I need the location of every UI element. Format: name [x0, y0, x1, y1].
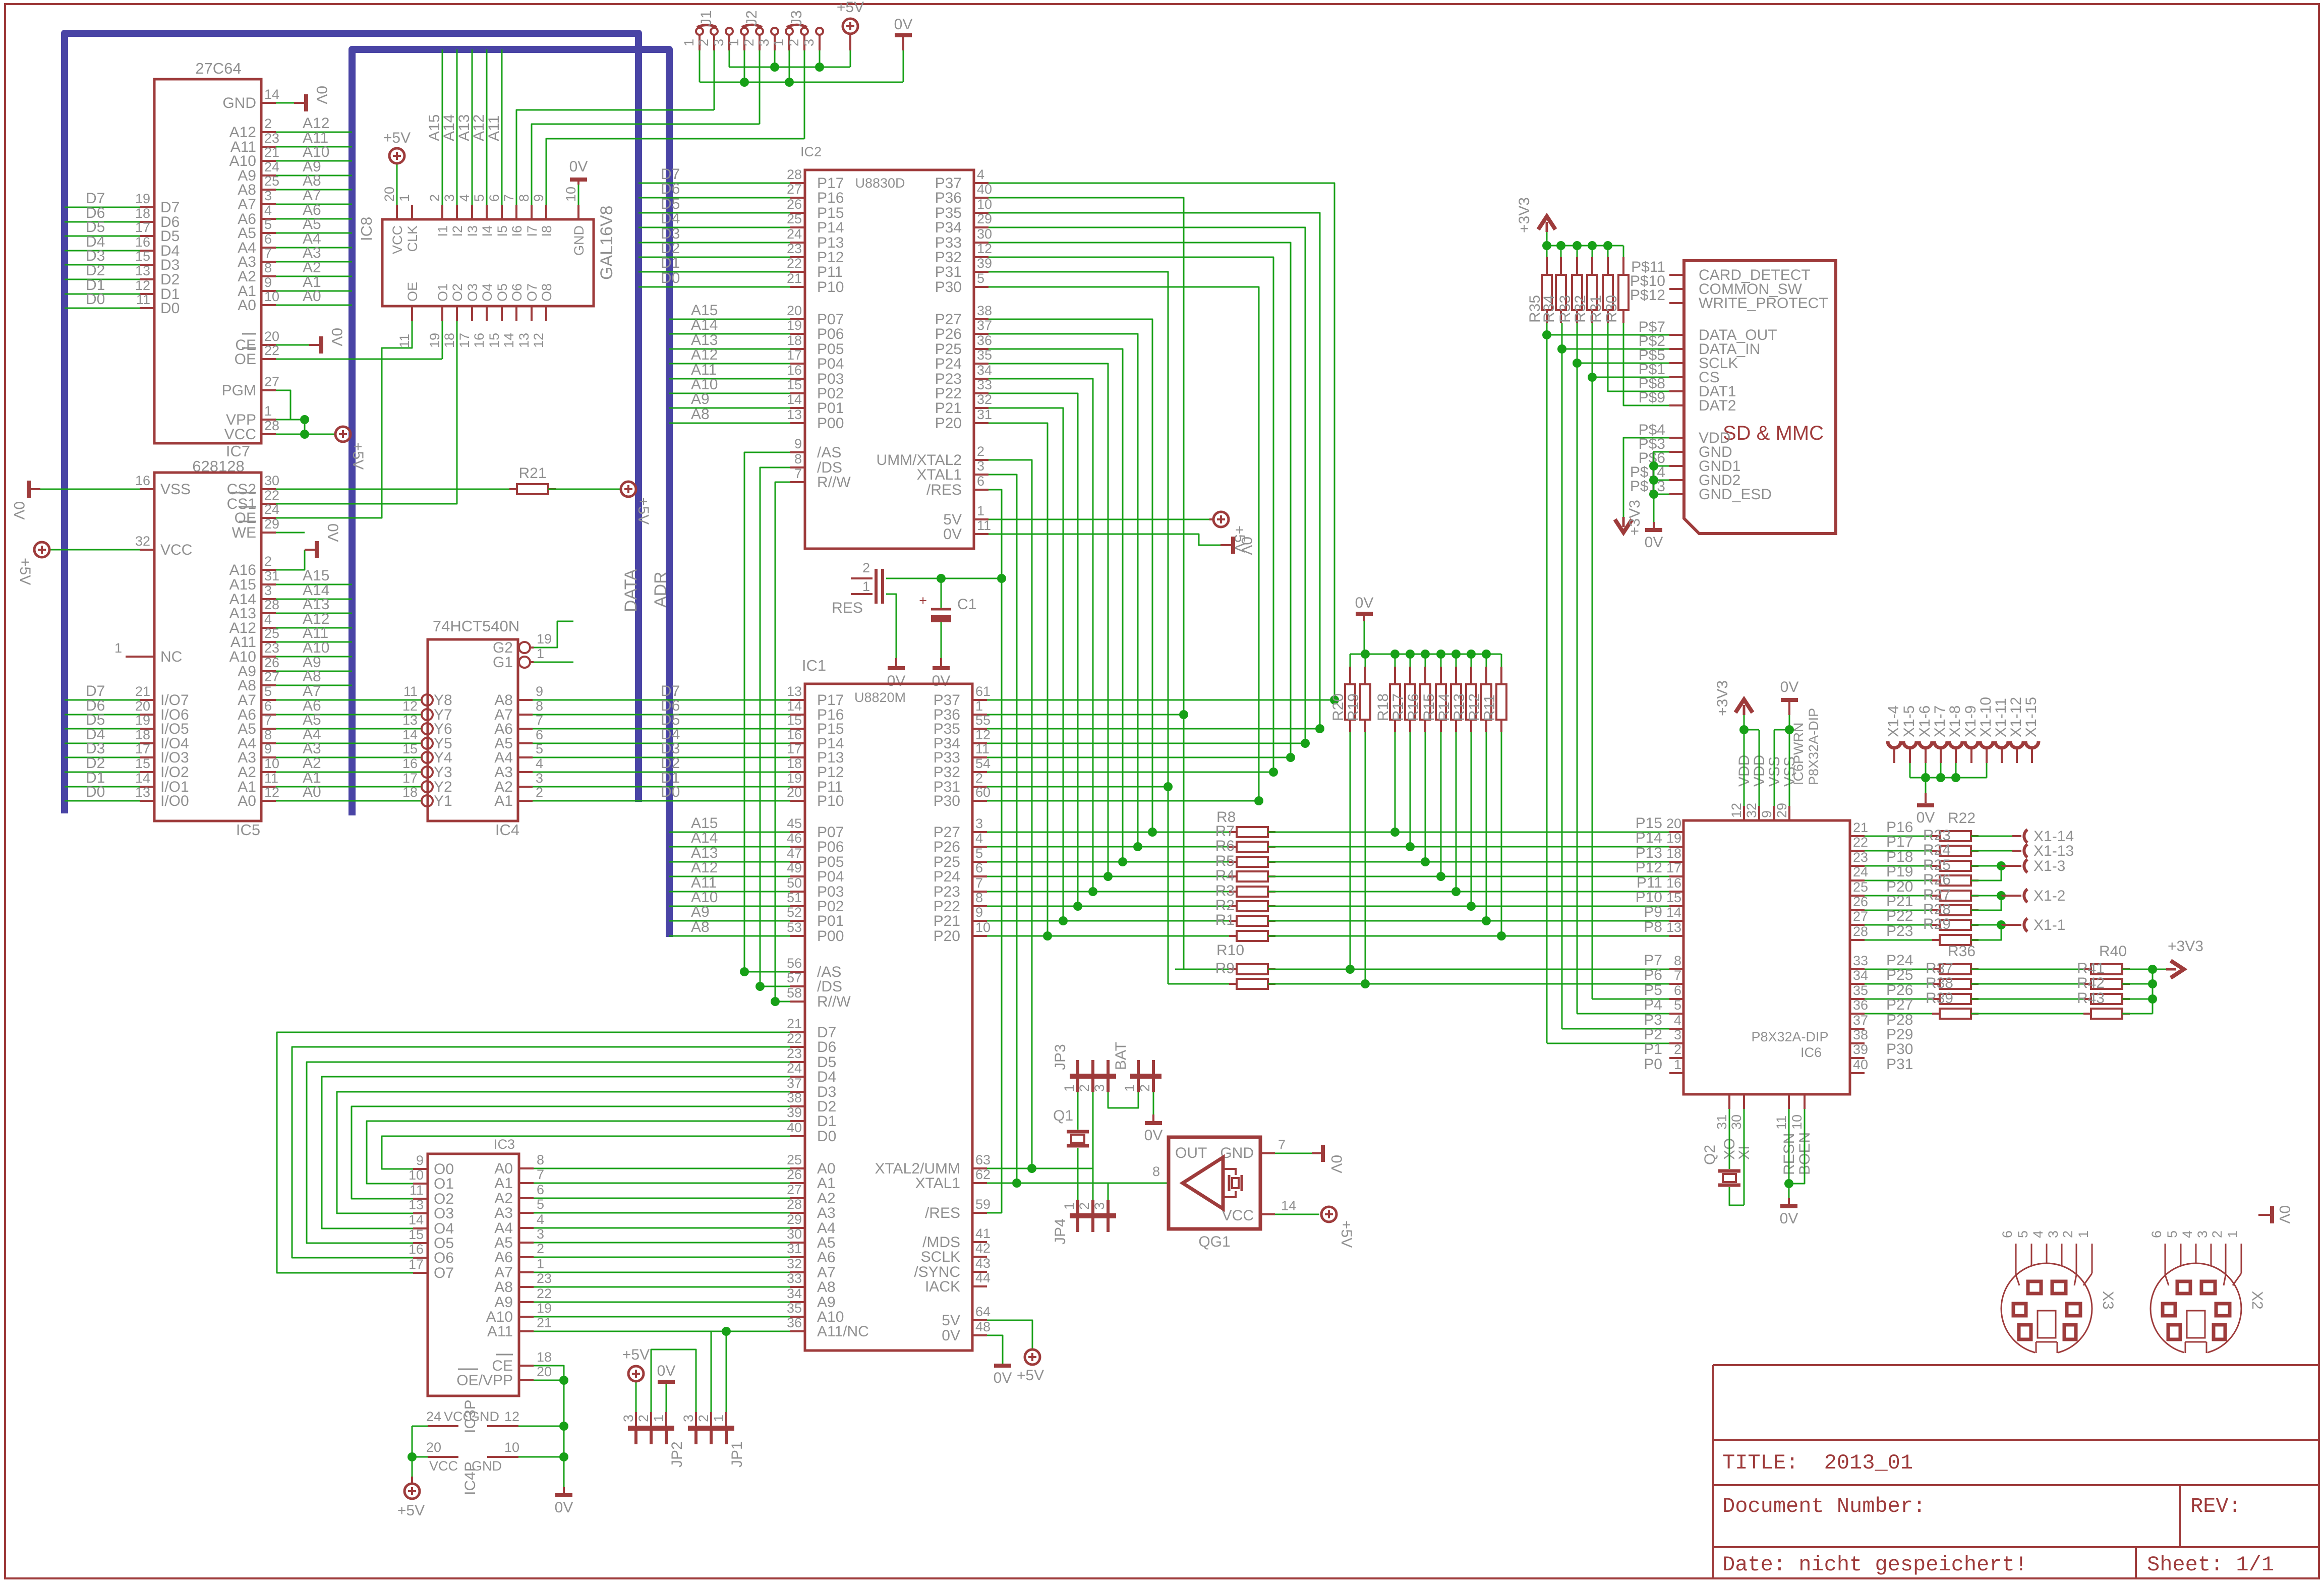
svg-text:2: 2: [786, 39, 801, 46]
svg-text:3: 3: [681, 1415, 696, 1422]
svg-text:/AS: /AS: [817, 444, 841, 461]
svg-text:0V: 0V: [932, 673, 951, 689]
svg-text:I3: I3: [465, 225, 480, 237]
svg-text:21: 21: [135, 684, 150, 699]
svg-text:P14: P14: [1636, 830, 1662, 846]
svg-text:59: 59: [975, 1197, 991, 1212]
svg-text:27: 27: [264, 374, 279, 389]
svg-text:1: 1: [1674, 1057, 1681, 1072]
svg-text:P24: P24: [935, 356, 962, 372]
svg-text:A11: A11: [486, 115, 502, 141]
svg-text:X1-4: X1-4: [1885, 706, 1902, 737]
svg-text:OE: OE: [235, 351, 256, 368]
svg-text:19: 19: [135, 713, 150, 728]
svg-text:4: 4: [1674, 1013, 1681, 1028]
svg-text:O6: O6: [509, 283, 525, 302]
svg-text:A6: A6: [817, 1249, 836, 1266]
svg-text:4: 4: [536, 756, 543, 771]
svg-text:OE/VPP: OE/VPP: [456, 1372, 513, 1389]
svg-text:0V: 0V: [1238, 537, 1255, 555]
svg-text:21: 21: [264, 145, 279, 160]
svg-text:+3V3: +3V3: [2168, 938, 2203, 955]
svg-text:0V: 0V: [328, 328, 345, 346]
svg-text:/RES: /RES: [925, 1205, 960, 1221]
svg-text:18: 18: [402, 785, 418, 800]
svg-text:18: 18: [787, 333, 802, 348]
svg-text:J3: J3: [788, 10, 805, 26]
svg-text:P10: P10: [817, 793, 844, 809]
svg-text:PGM: PGM: [222, 382, 256, 399]
svg-text:5: 5: [536, 741, 543, 756]
svg-text:D4: D4: [817, 1069, 836, 1085]
svg-text:A0: A0: [303, 288, 321, 305]
svg-text:P21: P21: [935, 400, 962, 417]
svg-text:J2: J2: [743, 10, 760, 26]
svg-text:25: 25: [787, 1152, 802, 1167]
svg-text:P14: P14: [817, 219, 844, 236]
svg-text:R16: R16: [1405, 693, 1422, 721]
svg-text:A3: A3: [494, 1205, 513, 1221]
svg-text:Y1: Y1: [434, 793, 452, 809]
svg-text:Q1: Q1: [1053, 1107, 1073, 1124]
svg-text:2: 2: [264, 554, 272, 569]
svg-text:8: 8: [536, 698, 543, 714]
svg-text:D0: D0: [160, 300, 180, 317]
svg-text:21: 21: [787, 1016, 802, 1031]
svg-text:20: 20: [1666, 816, 1681, 831]
svg-text:39: 39: [1853, 1042, 1868, 1057]
svg-text:R4: R4: [1215, 867, 1235, 884]
svg-text:P24: P24: [934, 868, 960, 885]
svg-text:22: 22: [787, 1031, 802, 1046]
svg-text:34: 34: [1853, 968, 1868, 983]
svg-text:P22: P22: [1886, 908, 1913, 924]
svg-text:P21: P21: [934, 913, 960, 929]
svg-text:/RES: /RES: [926, 482, 962, 498]
svg-text:P01: P01: [817, 913, 844, 929]
svg-text:1: 1: [2225, 1230, 2240, 1238]
svg-text:C1: C1: [957, 596, 976, 613]
svg-text:+5V: +5V: [1338, 1220, 1355, 1248]
svg-text:10: 10: [264, 756, 279, 771]
svg-text:GND_ESD: GND_ESD: [1699, 486, 1772, 503]
svg-text:40: 40: [1853, 1057, 1868, 1072]
svg-text:REV:: REV:: [2190, 1494, 2241, 1518]
svg-text:A8: A8: [691, 919, 710, 935]
svg-text:14: 14: [402, 727, 418, 742]
svg-text:O7: O7: [525, 283, 540, 302]
svg-text:12: 12: [531, 333, 546, 348]
svg-text:11: 11: [1774, 1115, 1789, 1130]
svg-text:JP2: JP2: [669, 1441, 685, 1467]
svg-text:20: 20: [264, 329, 279, 344]
svg-text:24: 24: [787, 226, 802, 242]
svg-text:24: 24: [426, 1409, 441, 1424]
svg-text:0V: 0V: [324, 523, 341, 542]
svg-text:0V: 0V: [942, 1327, 960, 1344]
svg-text:14: 14: [787, 392, 802, 407]
svg-text:43: 43: [975, 1256, 991, 1271]
svg-text:VSS: VSS: [160, 481, 191, 498]
svg-text:P8X32A-DIP: P8X32A-DIP: [1806, 708, 1821, 785]
svg-text:17: 17: [402, 771, 418, 786]
svg-text:P30: P30: [935, 279, 962, 296]
svg-text:0V: 0V: [569, 158, 588, 175]
svg-text:19: 19: [537, 1301, 552, 1316]
svg-text:37: 37: [787, 1076, 802, 1091]
svg-text:10: 10: [563, 187, 578, 202]
svg-text:P00: P00: [817, 928, 844, 945]
svg-text:ADR: ADR: [651, 571, 670, 608]
svg-text:QG1: QG1: [1198, 1233, 1230, 1250]
svg-text:1: 1: [681, 39, 696, 46]
svg-text:R18: R18: [1375, 693, 1391, 721]
svg-text:8: 8: [1152, 1164, 1160, 1179]
svg-text:23: 23: [264, 131, 279, 146]
svg-text:R30: R30: [1603, 295, 1620, 323]
svg-text:54: 54: [975, 756, 991, 771]
svg-text:U8830D: U8830D: [855, 175, 905, 191]
svg-text:12: 12: [402, 698, 418, 714]
svg-text:R33: R33: [1557, 295, 1574, 323]
svg-text:13: 13: [516, 333, 532, 348]
svg-text:VCC: VCC: [429, 1458, 458, 1474]
svg-text:R42: R42: [2077, 975, 2105, 991]
svg-text:A12: A12: [691, 859, 718, 876]
svg-text:IC6: IC6: [1800, 1045, 1822, 1060]
svg-text:P1: P1: [1644, 1041, 1662, 1058]
svg-text:0V: 0V: [994, 1370, 1012, 1386]
svg-text:42: 42: [975, 1241, 991, 1256]
svg-text:GND: GND: [222, 95, 256, 111]
svg-text:8: 8: [975, 890, 983, 905]
svg-text:P26: P26: [934, 839, 960, 855]
svg-text:23: 23: [787, 241, 802, 256]
svg-text:58: 58: [787, 985, 802, 1001]
svg-text:R39: R39: [1926, 990, 1953, 1007]
svg-text:R38: R38: [1926, 975, 1953, 991]
svg-text:52: 52: [787, 905, 802, 920]
svg-text:R6: R6: [1215, 838, 1235, 854]
svg-text:X2: X2: [2249, 1291, 2265, 1310]
svg-text:7: 7: [536, 713, 543, 728]
svg-text:14: 14: [409, 1212, 424, 1227]
svg-text:7: 7: [537, 1167, 544, 1182]
svg-text:3: 3: [2195, 1230, 2210, 1238]
svg-text:2: 2: [264, 116, 272, 131]
svg-text:19: 19: [135, 191, 150, 206]
svg-text:7: 7: [264, 713, 272, 728]
svg-text:A8: A8: [691, 406, 710, 423]
svg-text:3: 3: [536, 771, 543, 786]
svg-text:7: 7: [501, 194, 516, 202]
svg-text:1: 1: [1122, 1084, 1137, 1092]
svg-text:I5: I5: [495, 225, 510, 237]
svg-text:O8: O8: [539, 283, 554, 302]
svg-text:R//W: R//W: [817, 993, 851, 1010]
svg-text:R20: R20: [1330, 693, 1347, 721]
svg-text:28: 28: [1853, 924, 1868, 939]
svg-text:P34: P34: [935, 219, 962, 236]
svg-text:1: 1: [1062, 1202, 1077, 1210]
svg-text:13: 13: [787, 684, 802, 699]
svg-text:0V: 0V: [11, 501, 27, 520]
svg-text:2: 2: [1137, 1084, 1152, 1092]
svg-text:11: 11: [403, 684, 418, 699]
svg-text:17: 17: [787, 347, 802, 363]
svg-text:R26: R26: [1923, 871, 1951, 888]
svg-text:P04: P04: [817, 868, 844, 885]
svg-text:GND: GND: [1220, 1145, 1254, 1161]
svg-text:X1-12: X1-12: [2008, 697, 2024, 737]
svg-text:27C64: 27C64: [195, 60, 241, 77]
svg-text:O7: O7: [434, 1265, 454, 1281]
svg-text:P26: P26: [935, 326, 962, 342]
svg-text:P0: P0: [1644, 1056, 1662, 1073]
svg-text:33: 33: [787, 1271, 802, 1286]
svg-text:64: 64: [975, 1304, 991, 1319]
svg-text:11: 11: [977, 518, 991, 533]
svg-text:5: 5: [977, 271, 984, 286]
svg-text:23: 23: [787, 1046, 802, 1061]
svg-text:14: 14: [1666, 905, 1681, 920]
svg-text:A0: A0: [238, 297, 256, 314]
svg-text:48: 48: [975, 1319, 991, 1334]
svg-text:IC2: IC2: [800, 144, 822, 159]
svg-text:+5V: +5V: [837, 0, 864, 16]
svg-text:16: 16: [135, 234, 150, 250]
svg-text:53: 53: [787, 920, 802, 935]
svg-text:22: 22: [1853, 835, 1868, 850]
svg-text:A6: A6: [494, 1249, 513, 1266]
svg-text:12: 12: [504, 1409, 519, 1424]
svg-text:DATA: DATA: [621, 569, 641, 612]
svg-text:16: 16: [1666, 875, 1681, 891]
svg-text:13: 13: [135, 263, 150, 278]
svg-text:D0: D0: [661, 784, 680, 800]
svg-text:8: 8: [1674, 953, 1681, 968]
svg-text:29: 29: [1774, 803, 1789, 818]
svg-text:Sheet: 1/1: Sheet: 1/1: [2147, 1553, 2274, 1577]
svg-text:33: 33: [1853, 953, 1868, 968]
svg-text:DAT2: DAT2: [1699, 397, 1736, 414]
svg-text:0V: 0V: [555, 1499, 573, 1516]
svg-text:6: 6: [536, 727, 543, 742]
svg-text:XTAL1: XTAL1: [917, 466, 962, 483]
svg-text:16: 16: [135, 473, 150, 488]
svg-text:P25: P25: [1886, 967, 1913, 983]
svg-text:3: 3: [442, 194, 457, 202]
svg-text:0V: 0V: [894, 16, 913, 33]
svg-text:18: 18: [135, 206, 150, 221]
svg-text:74HCT540N: 74HCT540N: [433, 617, 519, 635]
svg-text:0V: 0V: [1916, 809, 1935, 826]
svg-text:26: 26: [264, 655, 279, 670]
svg-text:16: 16: [472, 333, 487, 348]
svg-text:15: 15: [1666, 890, 1681, 905]
svg-text:15: 15: [402, 741, 418, 756]
svg-text:30: 30: [264, 473, 279, 488]
svg-text:P8X32A-DIP: P8X32A-DIP: [1751, 1029, 1828, 1044]
svg-text:+5V: +5V: [635, 497, 652, 524]
svg-text:D6: D6: [661, 181, 680, 197]
svg-text:7: 7: [264, 246, 272, 261]
svg-text:A14: A14: [691, 830, 718, 846]
svg-text:20: 20: [135, 698, 150, 714]
svg-text:6: 6: [264, 698, 272, 714]
svg-text:28: 28: [787, 1197, 802, 1212]
svg-text:2: 2: [636, 1415, 651, 1422]
svg-text:P6: P6: [1644, 967, 1662, 983]
svg-text:12: 12: [1729, 803, 1744, 818]
svg-text:IC3P: IC3P: [462, 1399, 479, 1433]
svg-text:9: 9: [1759, 810, 1774, 818]
svg-text:X1-5: X1-5: [1901, 706, 1918, 737]
svg-text:IC3: IC3: [494, 1137, 515, 1152]
svg-text:13: 13: [409, 1197, 424, 1212]
svg-text:JP1: JP1: [729, 1441, 745, 1467]
svg-text:9: 9: [536, 684, 543, 699]
svg-text:6: 6: [264, 231, 272, 247]
svg-text:1: 1: [264, 403, 272, 419]
svg-text:23: 23: [537, 1271, 552, 1286]
svg-text:3: 3: [977, 458, 984, 474]
svg-text:R40: R40: [2099, 943, 2127, 960]
svg-text:OUT: OUT: [1175, 1145, 1207, 1161]
svg-text:1: 1: [862, 579, 870, 594]
svg-text:I/O0: I/O0: [160, 793, 189, 809]
svg-text:14: 14: [264, 87, 279, 102]
svg-text:P30: P30: [934, 793, 960, 809]
svg-text:3: 3: [621, 1415, 636, 1422]
svg-text:IC4P: IC4P: [462, 1461, 479, 1495]
svg-text:13: 13: [135, 785, 150, 800]
svg-text:2: 2: [1674, 1042, 1681, 1057]
svg-text:0V: 0V: [657, 1363, 676, 1379]
svg-text:D0: D0: [661, 270, 680, 286]
svg-text:P20: P20: [935, 415, 962, 432]
svg-text:+3V3: +3V3: [1626, 500, 1643, 536]
svg-text:VCC: VCC: [224, 426, 256, 443]
svg-text:A14: A14: [441, 114, 457, 141]
svg-text:4: 4: [264, 612, 272, 627]
svg-text:11: 11: [975, 741, 990, 756]
svg-text:I2: I2: [450, 225, 465, 237]
svg-text:16: 16: [402, 756, 418, 771]
svg-text:A14: A14: [691, 317, 718, 333]
svg-text:8: 8: [794, 451, 802, 466]
svg-text:X1-7: X1-7: [1932, 706, 1948, 737]
svg-text:O3: O3: [434, 1205, 454, 1222]
svg-text:21: 21: [537, 1315, 552, 1330]
svg-text:27: 27: [264, 669, 279, 684]
svg-text:7: 7: [975, 875, 983, 891]
svg-text:O3: O3: [465, 283, 480, 302]
svg-text:20: 20: [382, 187, 397, 202]
svg-text:+5V: +5V: [622, 1346, 650, 1363]
svg-text:20: 20: [787, 303, 802, 318]
svg-text:4: 4: [2180, 1230, 2195, 1238]
svg-text:32: 32: [1744, 803, 1759, 818]
svg-text:3: 3: [711, 39, 726, 46]
svg-text:5: 5: [264, 217, 272, 232]
svg-text:2: 2: [862, 560, 870, 575]
svg-text:P31: P31: [935, 264, 962, 280]
svg-text:16: 16: [787, 363, 802, 378]
svg-text:A1: A1: [817, 1175, 836, 1192]
svg-text:+5V: +5V: [350, 442, 366, 469]
svg-text:RES: RES: [832, 600, 863, 616]
svg-text:I1: I1: [435, 225, 450, 237]
svg-text:10: 10: [977, 197, 992, 212]
svg-text:+5V: +5V: [1017, 1367, 1044, 1384]
svg-text:9: 9: [794, 436, 802, 451]
svg-text:37: 37: [1853, 1013, 1868, 1028]
svg-text:19: 19: [427, 333, 442, 348]
svg-text:9: 9: [264, 741, 272, 756]
svg-text:25: 25: [1853, 879, 1868, 895]
svg-text:11: 11: [264, 771, 278, 786]
svg-text:2: 2: [696, 39, 711, 46]
svg-text:A9: A9: [691, 904, 710, 920]
svg-text:3: 3: [2046, 1230, 2061, 1238]
svg-text:A0: A0: [303, 784, 321, 800]
svg-text:8: 8: [516, 194, 532, 202]
svg-text:63: 63: [975, 1152, 991, 1167]
svg-text:P$12: P$12: [1630, 287, 1665, 304]
svg-text:22: 22: [787, 256, 802, 271]
svg-text:10: 10: [1789, 1114, 1805, 1130]
svg-text:X1-15: X1-15: [2023, 697, 2040, 737]
svg-text:5: 5: [537, 1197, 544, 1212]
svg-text:P30: P30: [1886, 1041, 1913, 1058]
svg-text:R10: R10: [1216, 942, 1244, 959]
svg-text:P12: P12: [1636, 859, 1662, 876]
svg-text:57: 57: [787, 970, 802, 985]
svg-text:2: 2: [977, 444, 984, 459]
svg-text:5: 5: [1674, 997, 1681, 1013]
svg-text:1: 1: [771, 39, 786, 46]
svg-text:49: 49: [787, 860, 802, 875]
svg-text:O1: O1: [434, 1176, 454, 1192]
svg-text:40: 40: [787, 1120, 802, 1135]
svg-text:P36: P36: [935, 190, 962, 206]
svg-text:20: 20: [426, 1440, 441, 1455]
svg-text:18: 18: [442, 333, 457, 348]
svg-text:Document Number:: Document Number:: [1722, 1494, 1926, 1518]
svg-text:31: 31: [787, 1241, 802, 1256]
svg-text:JP4: JP4: [1052, 1218, 1069, 1245]
svg-text:6: 6: [2149, 1230, 2164, 1238]
svg-text:21: 21: [1853, 820, 1868, 835]
svg-text:2: 2: [975, 771, 983, 786]
svg-text:IC5: IC5: [236, 821, 260, 839]
svg-text:A11: A11: [487, 1323, 513, 1340]
svg-text:I4: I4: [480, 225, 495, 237]
svg-text:35: 35: [787, 1301, 802, 1316]
svg-text:4: 4: [537, 1212, 544, 1227]
svg-text:17: 17: [1666, 860, 1681, 875]
svg-text:23: 23: [264, 640, 279, 656]
svg-text:41: 41: [975, 1226, 991, 1241]
svg-text:X1-10: X1-10: [1978, 697, 1994, 737]
svg-text:30: 30: [977, 226, 992, 242]
svg-text:X1-8: X1-8: [1947, 706, 1963, 737]
svg-text:6: 6: [975, 860, 983, 875]
svg-text:19: 19: [1666, 831, 1681, 846]
svg-text:A0: A0: [238, 793, 256, 809]
svg-text:36: 36: [977, 333, 992, 348]
